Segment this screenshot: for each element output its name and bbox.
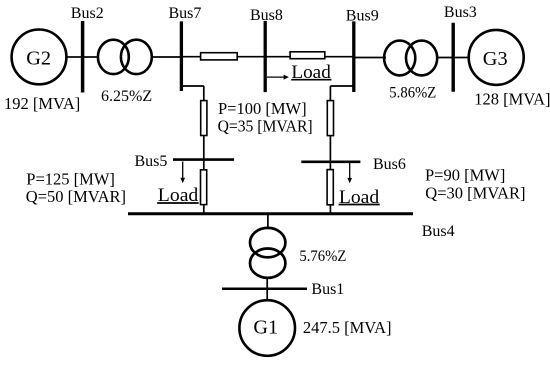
label Bus2 bbox=[71, 5, 104, 22]
wire Bus9 stub down bbox=[330, 86, 353, 101]
label Bus1 bbox=[311, 281, 344, 298]
svg-text:5.86%Z: 5.86%Z bbox=[389, 85, 436, 102]
wire G2 to Bus2 bbox=[66, 56, 82, 58]
load rect below Bus6 bbox=[327, 170, 333, 205]
svg-text:Bus7: Bus7 bbox=[169, 5, 202, 22]
transmission line 8-9 bbox=[290, 52, 325, 59]
svg-text:5.76%Z: 5.76%Z bbox=[299, 248, 346, 265]
svg-text:128 [MVA]: 128 [MVA] bbox=[474, 89, 550, 108]
transformer T1 bbox=[250, 228, 285, 278]
svg-text:Q=30 [MVAR]: Q=30 [MVAR] bbox=[425, 184, 525, 203]
wire load rect to Bus4 bbox=[203, 204, 205, 214]
svg-text:Bus9: Bus9 bbox=[346, 7, 379, 24]
load label at Bus6 bbox=[339, 187, 380, 208]
svg-text:Q=50 [MVAR]: Q=50 [MVAR] bbox=[26, 187, 126, 206]
generator G3 bbox=[469, 30, 524, 85]
label P=100 [MW] bbox=[218, 99, 307, 118]
label Bus7 bbox=[169, 5, 202, 22]
svg-text:Bus1: Bus1 bbox=[311, 281, 344, 298]
wire impedance to Bus6 bbox=[329, 136, 331, 162]
label 6.25%Z bbox=[101, 88, 152, 105]
svg-text:Bus6: Bus6 bbox=[373, 156, 406, 173]
bus Bus4 bbox=[128, 212, 413, 215]
svg-text:P=125 [MW]: P=125 [MW] bbox=[26, 170, 115, 189]
wire Bus2 to T2 bbox=[83, 56, 99, 58]
label Q=50 [MVAR] bbox=[26, 187, 126, 206]
bus Bus2 bbox=[81, 21, 85, 93]
label Bus5 bbox=[135, 153, 168, 170]
wire Bus6 to load rect bbox=[329, 163, 331, 170]
bus Bus7 bbox=[180, 21, 183, 91]
label Q=35 [MVAR] bbox=[218, 117, 313, 136]
generator G1 bbox=[239, 300, 295, 356]
wire T1 to Bus1 bbox=[266, 278, 268, 289]
arrow below Bus6 bbox=[347, 163, 352, 183]
load rect below Bus5 bbox=[201, 170, 207, 205]
label Bus6 bbox=[373, 156, 406, 173]
label P=125 [MW] bbox=[26, 170, 115, 189]
wire Bus9 to T3 bbox=[354, 57, 386, 59]
transformer T2 bbox=[98, 40, 152, 74]
bus Bus8 bbox=[264, 21, 267, 92]
label 5.76%Z bbox=[299, 248, 346, 265]
wire impedance to Bus5 bbox=[203, 136, 205, 160]
label 247.5 [MVA] bbox=[303, 318, 392, 337]
load label at Bus8 bbox=[291, 62, 331, 83]
wire load rect to Bus4 bbox=[329, 204, 331, 214]
svg-text:Q=35 [MVAR]: Q=35 [MVAR] bbox=[218, 117, 313, 136]
load arrow at Bus8 bbox=[267, 75, 289, 80]
svg-text:Bus8: Bus8 bbox=[250, 7, 283, 24]
wire Bus1 to G1 bbox=[266, 289, 268, 301]
impedance rect below Bus7 bbox=[201, 101, 207, 136]
svg-text:G1: G1 bbox=[253, 317, 278, 339]
wire Bus5 to load rect bbox=[203, 161, 205, 171]
label Bus4 bbox=[422, 223, 455, 240]
bus Bus5 bbox=[173, 158, 234, 161]
svg-text:192 [MVA]: 192 [MVA] bbox=[4, 94, 80, 113]
label 192 [MVA] bbox=[4, 94, 80, 113]
wire T2 to Bus7 bbox=[152, 56, 181, 58]
impedance rect below Bus9 bbox=[327, 101, 333, 136]
wire Bus7 stub down bbox=[181, 86, 203, 101]
svg-text:P=90 [MW]: P=90 [MW] bbox=[425, 166, 505, 185]
load label at Bus5 bbox=[157, 185, 199, 206]
label Bus8 bbox=[250, 7, 283, 24]
svg-text:Bus2: Bus2 bbox=[71, 5, 104, 22]
svg-text:Bus3: Bus3 bbox=[444, 4, 477, 21]
label Bus3 bbox=[444, 4, 477, 21]
wire Bus4 to T1 bbox=[267, 214, 269, 229]
svg-text:Bus4: Bus4 bbox=[422, 223, 455, 240]
transmission line 7-8 bbox=[201, 53, 238, 60]
label 5.86%Z bbox=[389, 85, 436, 102]
label 128 [MVA] bbox=[474, 89, 550, 108]
transformer T3 bbox=[384, 41, 437, 76]
wire Bus3 to G3 bbox=[453, 57, 470, 59]
bus Bus9 bbox=[352, 21, 355, 92]
bus Bus1 bbox=[222, 288, 307, 291]
generator G2 bbox=[12, 30, 67, 85]
svg-text:247.5 [MVA]: 247.5 [MVA] bbox=[303, 318, 392, 337]
label Bus9 bbox=[346, 7, 379, 24]
svg-text:P=100 [MW]: P=100 [MW] bbox=[218, 99, 307, 118]
svg-text:6.25%Z: 6.25%Z bbox=[101, 88, 152, 105]
bus Bus6 bbox=[301, 161, 360, 164]
wire Bus7 to Bus9 (main line) bbox=[181, 56, 353, 58]
label P=90 [MW] bbox=[425, 166, 505, 185]
svg-text:G2: G2 bbox=[26, 48, 51, 70]
label Q=30 [MVAR] bbox=[425, 184, 525, 203]
wire T3 to Bus3 bbox=[437, 57, 454, 59]
svg-text:G3: G3 bbox=[483, 48, 508, 70]
bus Bus3 bbox=[452, 23, 455, 92]
arrow below Bus5 bbox=[180, 162, 185, 184]
svg-text:Bus5: Bus5 bbox=[135, 153, 168, 170]
